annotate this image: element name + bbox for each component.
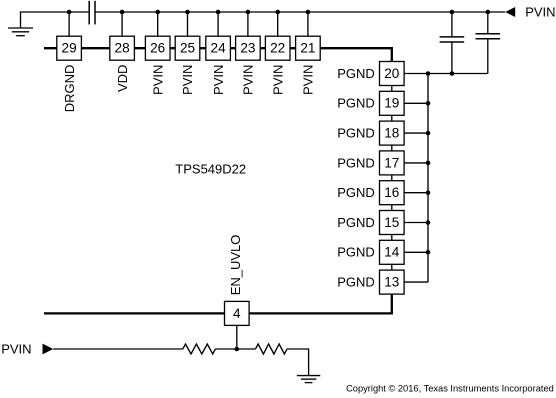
svg-text:PGND: PGND — [337, 125, 375, 140]
svg-text:PGND: PGND — [337, 96, 375, 111]
svg-text:29: 29 — [62, 41, 77, 56]
svg-text:PVIN: PVIN — [241, 65, 256, 95]
svg-text:19: 19 — [384, 96, 399, 111]
svg-text:PVIN: PVIN — [180, 65, 195, 95]
svg-text:28: 28 — [115, 41, 130, 56]
svg-text:PGND: PGND — [337, 155, 375, 170]
svg-text:22: 22 — [270, 41, 285, 56]
svg-text:PGND: PGND — [337, 66, 375, 81]
svg-text:PVIN: PVIN — [525, 5, 555, 20]
svg-text:PGND: PGND — [337, 185, 375, 200]
svg-text:24: 24 — [211, 41, 227, 56]
svg-text:PVIN: PVIN — [270, 65, 285, 95]
svg-text:16: 16 — [384, 185, 399, 200]
svg-text:13: 13 — [384, 274, 399, 289]
svg-text:26: 26 — [150, 41, 165, 56]
svg-text:PGND: PGND — [337, 274, 375, 289]
svg-text:DRGND: DRGND — [62, 65, 77, 113]
svg-text:TPS549D22: TPS549D22 — [175, 161, 246, 176]
svg-text:PVIN: PVIN — [211, 65, 226, 95]
svg-text:18: 18 — [384, 125, 399, 140]
svg-text:20: 20 — [384, 66, 400, 81]
svg-text:EN_UVLO: EN_UVLO — [228, 235, 243, 296]
svg-text:4: 4 — [233, 306, 241, 321]
svg-text:14: 14 — [384, 245, 400, 260]
svg-text:PVIN: PVIN — [1, 342, 31, 357]
svg-text:Copyright © 2016, Texas Instru: Copyright © 2016, Texas Instruments Inco… — [346, 384, 554, 394]
svg-text:17: 17 — [384, 155, 399, 170]
svg-text:PGND: PGND — [337, 215, 375, 230]
svg-text:PGND: PGND — [337, 245, 375, 260]
svg-text:PVIN: PVIN — [150, 65, 165, 95]
svg-text:15: 15 — [384, 215, 399, 230]
svg-text:23: 23 — [240, 41, 255, 56]
svg-text:21: 21 — [300, 41, 315, 56]
svg-text:PVIN: PVIN — [301, 65, 316, 95]
svg-text:VDD: VDD — [115, 65, 130, 92]
svg-text:25: 25 — [180, 41, 195, 56]
